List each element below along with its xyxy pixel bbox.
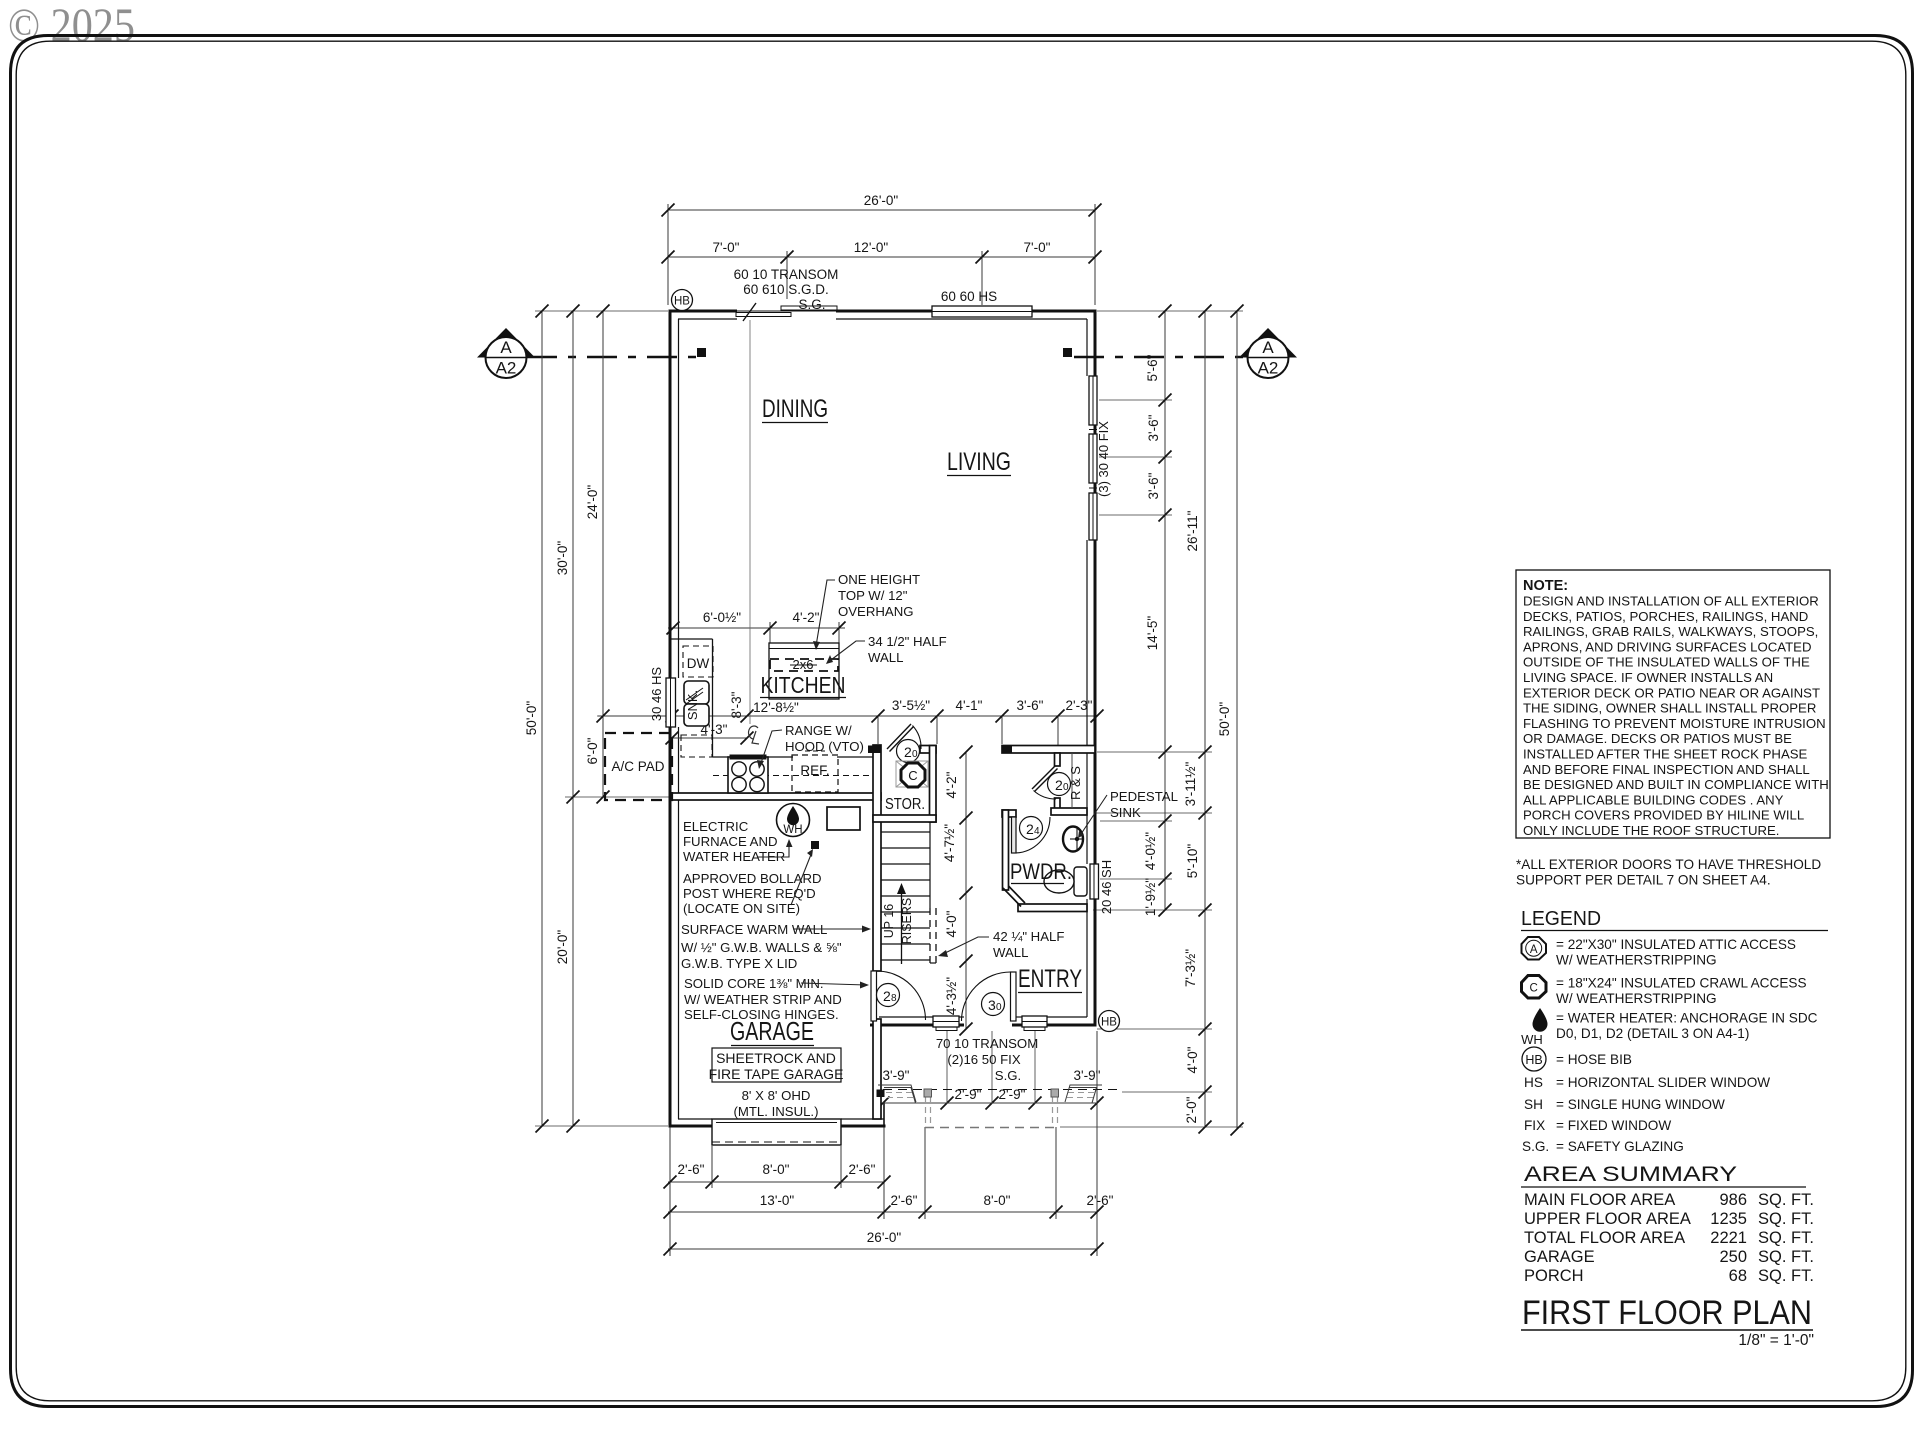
svg-text:4'-3½": 4'-3½" <box>944 977 959 1015</box>
garage bottom wall inner <box>678 1118 712 1120</box>
svg-text:4: 4 <box>1034 826 1040 837</box>
dim row 26'-0" top <box>668 209 1095 211</box>
porch post dashed left <box>925 1097 927 1127</box>
svg-text:A2: A2 <box>1258 359 1279 378</box>
svg-text:250: 250 <box>1719 1248 1747 1266</box>
svg-text:OR DAMAGE. DECKS OR PATIOS MUS: OR DAMAGE. DECKS OR PATIOS MUST BE <box>1523 731 1792 746</box>
svg-text:APRONS, AND DRIVING SURFACES L: APRONS, AND DRIVING SURFACES LOCATED <box>1523 639 1811 654</box>
svg-text:SNK.: SNK. <box>685 690 700 720</box>
door 30 entry leaf <box>1011 972 1017 1021</box>
svg-text:= SAFETY GLAZING: = SAFETY GLAZING <box>1556 1139 1684 1154</box>
door number circle 2-0 R&S <box>1048 773 1071 796</box>
garage sheetrock box <box>712 1048 841 1082</box>
svg-text:5'-6": 5'-6" <box>1145 354 1160 381</box>
wall kitchen/stor segment right of door 20 <box>920 746 936 754</box>
dim row kitchen main y716 <box>598 715 1097 717</box>
svg-text:LIVING SPACE. IF OWNER INSTALL: LIVING SPACE. IF OWNER INSTALLS AN <box>1523 670 1773 685</box>
svg-text:HB: HB <box>674 296 690 308</box>
svg-text:26'-0": 26'-0" <box>867 1230 902 1245</box>
REF top dashes (ice) <box>805 750 825 752</box>
svg-text:HOOD (VTO): HOOD (VTO) <box>785 739 864 754</box>
svg-text:RAILINGS, GRAB RAILS, WALKWAYS: RAILINGS, GRAB RAILS, WALKWAYS, STOOPS, <box>1523 624 1818 639</box>
door 28 garage arc <box>877 971 926 1020</box>
svg-text:2: 2 <box>904 744 912 760</box>
svg-text:2'-6": 2'-6" <box>891 1193 918 1208</box>
svg-text:20'-0": 20'-0" <box>555 930 570 965</box>
sidelite sill tab left <box>936 1025 957 1031</box>
svg-text:3'-6": 3'-6" <box>1146 414 1161 441</box>
door 20 STOR (kitchen) leaf <box>887 724 911 749</box>
svg-text:4'-2": 4'-2" <box>944 771 959 798</box>
svg-text:50'-0": 50'-0" <box>1217 702 1232 737</box>
svg-text:SQ. FT.: SQ. FT. <box>1758 1267 1814 1285</box>
PWDR underline <box>1011 883 1064 885</box>
entry/porch bottom wall outer <box>870 1024 933 1027</box>
porch step trapezoid right <box>1065 1088 1097 1104</box>
porch corner post black <box>877 1090 885 1098</box>
svg-text:0: 0 <box>912 749 918 760</box>
svg-text:FIX: FIX <box>1524 1118 1545 1133</box>
svg-text:LEGEND: LEGEND <box>1521 908 1601 930</box>
door number circle 3-0 entry <box>982 993 1005 1016</box>
svg-text:SHEETROCK AND: SHEETROCK AND <box>716 1050 836 1066</box>
svg-text:C: C <box>908 768 917 783</box>
svg-text:A: A <box>1262 338 1274 357</box>
svg-text:8: 8 <box>891 993 897 1004</box>
legend attic access symbol <box>1522 937 1547 960</box>
kitchen centerline <box>749 320 751 724</box>
svg-text:D0, D1, D2 (DETAIL 3 ON A4-1): D0, D1, D2 (DETAIL 3 ON A4-1) <box>1556 1026 1749 1041</box>
svg-text:13'-0": 13'-0" <box>760 1193 795 1208</box>
svg-text:7'-3½": 7'-3½" <box>1183 949 1198 987</box>
REF dashed box <box>792 755 838 792</box>
svg-text:C: C <box>1530 983 1538 995</box>
porch dim row y1103 <box>883 1102 1097 1104</box>
wall pwdr entry stub <box>1002 810 1016 817</box>
svg-text:SH: SH <box>1524 1097 1543 1112</box>
hose bib HB top <box>672 290 693 311</box>
svg-text:DW: DW <box>687 656 710 671</box>
window (3) 30 40 FIX unit2 <box>1089 434 1097 483</box>
svg-text:GARAGE: GARAGE <box>1524 1248 1595 1266</box>
svg-text:WH: WH <box>1521 1032 1543 1047</box>
sidelite sill tab right <box>1024 1025 1045 1031</box>
wall closet jog upper <box>1055 753 1061 766</box>
svg-text:3'-6": 3'-6" <box>1017 698 1044 713</box>
svg-text:4'-1": 4'-1" <box>956 698 983 713</box>
svg-text:8'-0": 8'-0" <box>763 1162 790 1177</box>
svg-text:R & S: R & S <box>1068 766 1083 800</box>
leader surface warm wall <box>793 928 868 930</box>
right wall outer <box>1094 310 1097 1027</box>
svg-text:ALL APPLICABLE BUILDING CODES: ALL APPLICABLE BUILDING CODES . ANY <box>1523 792 1784 807</box>
arrowheads <box>813 641 820 650</box>
svg-text:A/C PAD: A/C PAD <box>611 759 664 774</box>
window (3) 30 40 FIX unit1 <box>1089 376 1097 425</box>
window 30 46 HS left wall <box>666 678 676 727</box>
svg-text:3'-9": 3'-9" <box>1074 1068 1101 1083</box>
left wall inner <box>678 319 680 678</box>
svg-text:FIRST FLOOR PLAN: FIRST FLOOR PLAN <box>1522 1294 1812 1332</box>
svg-text:FURNACE AND: FURNACE AND <box>683 834 778 849</box>
svg-text:1/8" = 1'-0": 1/8" = 1'-0" <box>1738 1332 1814 1349</box>
garage right wall lower <box>883 1103 885 1126</box>
dim row y1212 <box>668 1211 1097 1213</box>
top wall inner <box>678 318 737 320</box>
svg-text:OUTSIDE OF THE INSULATED WALLS: OUTSIDE OF THE INSULATED WALLS OF THE <box>1523 655 1810 670</box>
door 24 PWDR leaf <box>1012 817 1017 853</box>
pedestal sink <box>1063 827 1084 852</box>
svg-text:= 18"X24" INSULATED CRAWL ACCE: = 18"X24" INSULATED CRAWL ACCESS <box>1556 976 1807 991</box>
left dim col x573 30/20 <box>572 311 574 1126</box>
svg-text:PEDESTAL: PEDESTAL <box>1110 789 1178 804</box>
leader 34 1/2 half wall <box>827 641 865 663</box>
svg-text:7'-0": 7'-0" <box>1024 240 1051 255</box>
A/C PAD dashed box <box>605 733 672 800</box>
svg-text:UPPER FLOOR AREA: UPPER FLOOR AREA <box>1524 1210 1691 1228</box>
stair risers <box>881 831 930 833</box>
svg-text:42 ¼" HALF: 42 ¼" HALF <box>993 929 1064 944</box>
svg-text:AND BEFORE FINAL INSPECTION AN: AND BEFORE FINAL INSPECTION AND SHALL <box>1523 762 1810 777</box>
window 20 46 SH pwdr <box>1090 864 1099 899</box>
svg-text:12'-0": 12'-0" <box>854 240 889 255</box>
svg-text:3'-9": 3'-9" <box>883 1068 910 1083</box>
svg-text:NOTE:: NOTE: <box>1523 578 1568 594</box>
note box <box>1516 570 1830 838</box>
svg-text:RISERS: RISERS <box>900 898 914 945</box>
svg-text:PWDR.: PWDR. <box>1010 859 1072 884</box>
svg-text:W/ WEATHER STRIP AND: W/ WEATHER STRIP AND <box>684 992 842 1007</box>
svg-text:ENTRY: ENTRY <box>1018 965 1082 993</box>
door 30 entry arc <box>962 972 1011 1021</box>
svg-text:3'-5½": 3'-5½" <box>892 698 930 713</box>
svg-text:DECKS, PATIOS, PORCHES, RAILIN: DECKS, PATIOS, PORCHES, RAILINGS, HAND <box>1523 609 1808 624</box>
kitchen island <box>769 643 839 699</box>
svg-text:HS: HS <box>1524 1075 1543 1090</box>
svg-text:UP 16: UP 16 <box>882 904 896 939</box>
door number circle 2-0 STOR <box>897 740 920 763</box>
ext lines top <box>667 204 669 305</box>
svg-text:HB: HB <box>1525 1053 1542 1067</box>
door number circle 2-8 garage <box>877 984 900 1007</box>
wall PWDR left <box>1003 810 1009 890</box>
R&S rod line <box>1071 753 1073 808</box>
WH drop icon <box>787 806 799 825</box>
svg-text:SQ. FT.: SQ. FT. <box>1758 1191 1814 1209</box>
svg-text:= 22"X30" INSULATED ATTIC ACCE: = 22"X30" INSULATED ATTIC ACCESS <box>1556 937 1796 952</box>
svg-text:APPROVED BOLLARD: APPROVED BOLLARD <box>683 871 822 886</box>
svg-text:1'-9½": 1'-9½" <box>1143 878 1158 916</box>
svg-text:30 46 HS: 30 46 HS <box>649 667 664 722</box>
garage door dim row y1182 <box>668 1181 884 1183</box>
svg-text:5'-10": 5'-10" <box>1185 844 1200 879</box>
section node square left <box>697 348 706 357</box>
svg-text:W/ WEATHERSTRIPPING: W/ WEATHERSTRIPPING <box>1556 991 1717 1006</box>
svg-text:= HOSE BIB: = HOSE BIB <box>1556 1052 1632 1067</box>
svg-text:26'-11": 26'-11" <box>1185 510 1200 551</box>
porch post dashed right <box>1052 1097 1054 1127</box>
svg-text:4'-0": 4'-0" <box>944 910 959 937</box>
hose bib HB bottom <box>1099 1011 1120 1032</box>
door number circle 2-4 PWDR <box>1020 817 1043 840</box>
wall closet jog lower <box>1055 798 1061 809</box>
svg-text:A2: A2 <box>496 359 517 378</box>
svg-text:4'-7½": 4'-7½" <box>942 824 957 862</box>
svg-text:8' X 8' OHD: 8' X 8' OHD <box>742 1088 811 1103</box>
svg-text:WH: WH <box>783 824 802 836</box>
wall end cap black (stair wall at kitchen) <box>868 746 881 754</box>
step leader right 3'-9" <box>1065 1085 1102 1102</box>
svg-text:2'-6": 2'-6" <box>678 1162 705 1177</box>
step leader left 3'-9" <box>878 1085 916 1102</box>
svg-text:*ALL EXTERIOR DOORS TO HAVE TH: *ALL EXTERIOR DOORS TO HAVE THRESHOLD <box>1516 857 1821 872</box>
svg-text:SINK: SINK <box>1110 805 1141 820</box>
dim row 7/12/7 <box>668 256 1095 258</box>
svg-text:6'-0½": 6'-0½" <box>703 610 741 625</box>
right dim col x1237 50'-0" <box>1236 311 1238 1129</box>
counter dashed backline <box>713 775 873 777</box>
svg-text:OVERHANG: OVERHANG <box>838 604 913 619</box>
toilet tank <box>1074 867 1087 896</box>
left dim col x542 50'-0" <box>541 311 543 1126</box>
svg-text:7'-0": 7'-0" <box>713 240 740 255</box>
right ext horizontals <box>1097 310 1243 312</box>
svg-text:FLASHING TO PREVENT MOISTURE I: FLASHING TO PREVENT MOISTURE INTRUSION <box>1523 716 1826 731</box>
svg-text:30'-0": 30'-0" <box>555 541 570 576</box>
centerline symbol <box>749 726 759 744</box>
dashed cabinet below sink <box>681 735 712 757</box>
garage OHD door slab <box>712 1119 841 1145</box>
sink faucet slash <box>686 688 703 700</box>
svg-text:2'-3": 2'-3" <box>1066 698 1093 713</box>
leader water heater <box>758 842 789 857</box>
svg-text:4'-0": 4'-0" <box>1185 1046 1200 1073</box>
svg-text:3: 3 <box>988 997 996 1013</box>
svg-text:60 60 HS: 60 60 HS <box>941 289 997 304</box>
leader solid core <box>801 983 866 985</box>
svg-text:W/ WEATHERSTRIPPING: W/ WEATHERSTRIPPING <box>1556 952 1717 967</box>
svg-text:20 46 SH: 20 46 SH <box>1099 860 1114 914</box>
svg-text:EXTERIOR DECK OR PATIO NEAR OR: EXTERIOR DECK OR PATIO NEAR OR AGAINST <box>1523 685 1820 700</box>
left wall outer <box>669 310 672 1128</box>
porch post square left <box>924 1089 932 1097</box>
svg-text:G.W.B. TYPE X LID: G.W.B. TYPE X LID <box>681 956 797 971</box>
toilet bowl <box>1044 870 1074 893</box>
leader bollard <box>791 852 812 905</box>
left ext horizontals <box>535 310 668 312</box>
legend water heater symbol <box>1533 1008 1548 1032</box>
svg-text:THE SIDING, OWNER SHALL INSTAL: THE SIDING, OWNER SHALL INSTALL PROPER <box>1523 701 1816 716</box>
kitchen sink SNK double bowl <box>684 681 709 726</box>
svg-text:(LOCATE ON SITE): (LOCATE ON SITE) <box>683 901 800 916</box>
svg-text:KITCHEN: KITCHEN <box>761 672 846 698</box>
svg-text:A: A <box>1530 944 1538 956</box>
wall STOR bottom <box>873 815 936 822</box>
section line dashed left <box>527 356 696 358</box>
entry/porch bottom wall inner <box>879 1016 933 1018</box>
svg-text:2221: 2221 <box>1710 1229 1747 1247</box>
wall PWDR top y745 <box>1002 746 1095 754</box>
svg-text:STOR.: STOR. <box>885 796 925 813</box>
right dim col x1165 <box>1164 311 1166 910</box>
svg-text:(2)16 50 FIX: (2)16 50 FIX <box>947 1052 1021 1067</box>
entry sidelite window left <box>933 1016 959 1027</box>
dim row 26'-0" bottom y1249 <box>668 1248 1097 1250</box>
svg-text:50'-0": 50'-0" <box>524 701 539 736</box>
svg-text:70 10 TRANSOM: 70 10 TRANSOM <box>936 1036 1038 1051</box>
door 20 STOR arc <box>913 726 922 750</box>
svg-text:© 2025: © 2025 <box>8 0 135 52</box>
svg-text:60 610 S.G.D.: 60 610 S.G.D. <box>743 282 829 297</box>
svg-text:SQ. FT.: SQ. FT. <box>1758 1229 1814 1247</box>
svg-text:2'-6": 2'-6" <box>849 1162 876 1177</box>
counter edge solid <box>669 639 873 757</box>
leader one-height-top <box>816 580 835 646</box>
wall STOR right <box>930 746 937 823</box>
hall dim col x966 <box>965 752 967 1029</box>
svg-text:PORCH: PORCH <box>1524 1267 1584 1285</box>
legend hose bib symbol <box>1522 1047 1546 1071</box>
svg-text:2: 2 <box>1026 821 1034 837</box>
bollard post black square <box>811 841 819 849</box>
svg-text:S.G.: S.G. <box>798 297 825 312</box>
svg-text:6'-0": 6'-0" <box>585 737 600 764</box>
sliding glass door S.G.D. <box>736 310 837 312</box>
svg-text:WALL: WALL <box>993 945 1028 960</box>
svg-text:(3) 30 40 FIX: (3) 30 40 FIX <box>1096 421 1111 497</box>
top wall outer <box>669 310 738 313</box>
svg-text:26'-0": 26'-0" <box>864 193 899 208</box>
svg-text:8'-0": 8'-0" <box>984 1193 1011 1208</box>
crawl access dashed box with X <box>896 761 928 787</box>
svg-text:= WATER HEATER: ANCHORAGE IN S: = WATER HEATER: ANCHORAGE IN SDC <box>1556 1011 1818 1026</box>
svg-text:2: 2 <box>883 988 891 1004</box>
stair right stringer <box>929 822 931 908</box>
svg-text:2'-0": 2'-0" <box>1184 1096 1199 1123</box>
svg-text:3'-11½": 3'-11½" <box>1183 761 1198 806</box>
svg-text:2: 2 <box>1055 777 1063 793</box>
porch roofline dashed <box>883 1089 1120 1091</box>
svg-text:A: A <box>500 338 512 357</box>
svg-text:= SINGLE HUNG WINDOW: = SINGLE HUNG WINDOW <box>1556 1097 1725 1112</box>
svg-text:BE DESIGNED AND BUILT IN COMPL: BE DESIGNED AND BUILT IN COMPLIANCE WITH <box>1523 777 1829 792</box>
svg-text:TOTAL FLOOR AREA: TOTAL FLOOR AREA <box>1524 1229 1685 1247</box>
svg-text:3'-6": 3'-6" <box>1146 472 1161 499</box>
svg-text:SQ. FT.: SQ. FT. <box>1758 1210 1814 1228</box>
legend crawl access symbol <box>1522 976 1547 999</box>
svg-text:MAIN FLOOR AREA: MAIN FLOOR AREA <box>1524 1191 1675 1209</box>
wall stair-left / garage-right upper <box>873 745 881 971</box>
island 2x6 half wall dashed <box>770 659 838 671</box>
entry sidelite window right <box>1022 1016 1047 1027</box>
water heater WH circle <box>777 804 810 837</box>
svg-text:FIRE TAPE GARAGE: FIRE TAPE GARAGE <box>709 1066 844 1082</box>
svg-text:68: 68 <box>1729 1267 1747 1285</box>
svg-text:= HORIZONTAL SLIDER WINDOW: = HORIZONTAL SLIDER WINDOW <box>1556 1075 1770 1090</box>
note paragraph <box>1523 594 1829 839</box>
svg-text:34 1/2" HALF: 34 1/2" HALF <box>868 634 947 649</box>
wall closet bottom / pwdr upper <box>1051 808 1087 815</box>
svg-text:986: 986 <box>1719 1191 1747 1209</box>
svg-text:ONLY INCLUDE THE ROOF STRUCTUR: ONLY INCLUDE THE ROOF STRUCTURE. <box>1523 823 1779 838</box>
svg-text:REF.: REF. <box>800 763 829 778</box>
svg-text:1235: 1235 <box>1710 1210 1747 1228</box>
window 60 60 HS top <box>932 306 1032 317</box>
right wall inner <box>1086 319 1088 376</box>
svg-text:(MTL. INSUL.): (MTL. INSUL.) <box>734 1104 819 1119</box>
wall end cap black (pwdr wall at hall) <box>1002 746 1012 754</box>
svg-text:RANGE W/: RANGE W/ <box>785 723 852 738</box>
svg-text:ONE HEIGHT: ONE HEIGHT <box>838 572 920 587</box>
door 24 PWDR arc <box>1014 817 1050 853</box>
svg-text:12'-8½": 12'-8½" <box>753 700 799 715</box>
svg-text:ELECTRIC: ELECTRIC <box>683 819 749 834</box>
stair half wall dashed rail <box>929 908 931 963</box>
svg-text:PORCH COVERS PROVIDED BY HILIN: PORCH COVERS PROVIDED BY HILINE WILL <box>1523 808 1804 823</box>
svg-text:S.G.: S.G. <box>995 1068 1021 1083</box>
wall PWDR chamfer <box>1003 888 1021 907</box>
stair up arrow <box>901 890 903 964</box>
wall kitchen/garage y793 <box>672 793 881 800</box>
leader 42 1/4 half wall <box>941 937 989 955</box>
section node square right <box>1063 348 1072 357</box>
svg-text:WALL: WALL <box>868 650 903 665</box>
svg-text:DESIGN AND INSTALLATION OF ALL: DESIGN AND INSTALLATION OF ALL EXTERIOR <box>1523 594 1819 609</box>
svg-text:W/ ½" G.W.B. WALLS & ⅝": W/ ½" G.W.B. WALLS & ⅝" <box>681 940 842 955</box>
left dim col x603 24/6 <box>602 311 604 797</box>
svg-text:LIVING: LIVING <box>947 448 1011 476</box>
leader pedestal sink <box>1079 795 1107 837</box>
svg-text:SQ. FT.: SQ. FT. <box>1758 1248 1814 1266</box>
FIX window mullions <box>1089 429 1097 431</box>
dim line 4'-3" sink <box>672 737 747 739</box>
svg-text:S.G.: S.G. <box>1522 1139 1549 1154</box>
bottom vertical ext lines <box>669 1126 671 1256</box>
svg-text:4'-0½": 4'-0½" <box>1143 832 1158 870</box>
porch slab edge <box>883 1102 1097 1104</box>
svg-text:60 10 TRANSOM: 60 10 TRANSOM <box>734 267 839 282</box>
window (3) 30 40 FIX unit3 <box>1089 493 1097 540</box>
svg-text:SELF-CLOSING HINGES.: SELF-CLOSING HINGES. <box>684 1007 839 1022</box>
svg-text:8'-3": 8'-3" <box>729 691 744 718</box>
door 28 garage leaf <box>871 971 877 1021</box>
wall PWDR bottom <box>1018 904 1087 912</box>
svg-text:= FIXED WINDOW: = FIXED WINDOW <box>1556 1118 1671 1133</box>
svg-text:TOP W/ 12": TOP W/ 12" <box>838 588 908 603</box>
dim row kitchen 6'-0.5 / 4'-2 <box>668 627 845 629</box>
svg-text:14'-5": 14'-5" <box>1145 616 1160 651</box>
svg-text:INSTALLED AFTER THE SHEET ROCK: INSTALLED AFTER THE SHEET ROCK PHASE <box>1523 747 1808 762</box>
section marker right A/A2 <box>1239 328 1297 378</box>
crawl access octagon C <box>901 763 925 787</box>
door 20 R&S closet arc <box>1034 791 1057 800</box>
furnace platform rect <box>827 807 860 830</box>
ext drops from row 716 <box>877 716 879 744</box>
range with hood <box>728 755 768 794</box>
wall garage-right lower (below door 28) <box>873 1019 881 1119</box>
svg-text:HB: HB <box>1101 1017 1117 1029</box>
garage bottom wall outer <box>669 1125 713 1128</box>
leader range <box>760 730 782 766</box>
svg-text:SUPPORT PER DETAIL 7 ON SHEET: SUPPORT PER DETAIL 7 ON SHEET A4. <box>1516 872 1771 887</box>
svg-text:2'-6": 2'-6" <box>1087 1193 1114 1208</box>
svg-text:24'-0": 24'-0" <box>585 485 600 520</box>
section marker left A/A2 <box>477 328 535 378</box>
section line dashed right <box>1074 356 1247 358</box>
porch step dashed lower <box>925 1127 1058 1129</box>
right dim col x1205 <box>1204 311 1206 1127</box>
porch post square right <box>1051 1089 1059 1097</box>
